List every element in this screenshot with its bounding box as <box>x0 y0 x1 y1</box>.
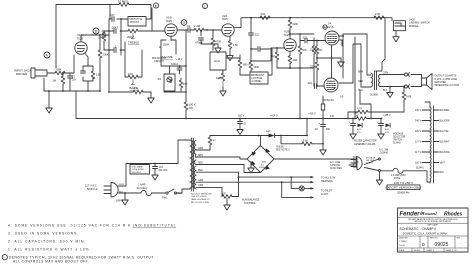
svg-text:NORMAL: NORMAL <box>409 25 420 28</box>
svg-text:10K: 10K <box>216 76 221 80</box>
svg-text:10K: 10K <box>128 72 133 76</box>
ground driver grid <box>213 44 221 53</box>
svg-text:BLK/YEL: BLK/YEL <box>440 131 450 133</box>
svg-text:.022: .022 <box>254 34 259 37</box>
svg-text:1W: 1W <box>189 106 194 110</box>
line/reverb jack J2 <box>385 18 430 31</box>
resistor R12 680K <box>226 55 250 75</box>
resistor R1 68K <box>55 68 65 75</box>
capacitor C6 470pF <box>195 30 213 45</box>
svg-text:+418 V: +418 V <box>308 112 316 115</box>
svg-text:U1A: U1A <box>214 59 220 63</box>
capacitor C2 .047 <box>109 13 121 21</box>
svg-text:2.2K: 2.2K <box>375 12 381 16</box>
svg-text:013999: 013999 <box>370 94 378 96</box>
svg-text:220 V: 220 V <box>415 131 421 133</box>
capacitor C18 25uF <box>68 73 77 91</box>
svg-text:013438: 013438 <box>175 193 183 195</box>
svg-text:1.6 AMP 250V: 1.6 AMP 250V <box>391 174 406 177</box>
svg-text:BLK: BLK <box>440 172 445 174</box>
cathode V2A <box>227 37 239 61</box>
voltage selector text <box>393 132 406 144</box>
filter cap C12 40uF riser <box>315 119 331 147</box>
riser rectifier to bus <box>306 118 308 137</box>
B+ center tap feed <box>376 18 386 71</box>
svg-text:JACK: JACK <box>409 18 415 21</box>
speaker SPK <box>422 74 433 90</box>
svg-text:22K: 22K <box>261 12 266 16</box>
svg-text:TYPE FUSE: TYPE FUSE <box>132 169 145 171</box>
svg-text:S3: S3 <box>158 77 162 81</box>
svg-text:.047: .047 <box>109 13 115 17</box>
node C circled <box>202 3 207 8</box>
grid resistor V5 220K <box>310 58 319 86</box>
svg-text:BLK/GRN: BLK/GRN <box>440 121 450 123</box>
svg-text:1.5K: 1.5K <box>96 74 101 77</box>
screen resistor V5 box <box>321 96 324 119</box>
hum balance pot <box>222 187 239 210</box>
heater arrows <box>311 176 314 199</box>
capacitor C4 .1 <box>109 42 125 52</box>
svg-text:10 MEG: 10 MEG <box>118 0 128 4</box>
svg-text:BLK/WHT: BLK/WHT <box>440 142 451 144</box>
fuse F1 1A SLO-BLO <box>137 183 154 195</box>
wire V5 grid <box>317 85 324 87</box>
svg-text:2. ALL CAPACITORS: 600 V MIN: 2. ALL CAPACITORS: 600 V MIN. <box>8 239 86 243</box>
svg-text:470pF: 470pF <box>195 41 203 45</box>
svg-text:GRN: GRN <box>198 180 203 182</box>
svg-text:50/60 Hz: 50/60 Hz <box>87 187 98 191</box>
svg-text:15K: 15K <box>183 82 188 86</box>
export caption <box>385 181 421 194</box>
svg-text:IMPEDANCE 3.2 OHM: IMPEDANCE 3.2 OHM <box>435 84 459 87</box>
svg-text:013442: 013442 <box>393 142 401 144</box>
svg-text:100 V: 100 V <box>415 163 421 165</box>
diode D2 <box>385 123 390 134</box>
resistor R19 470K <box>312 38 322 68</box>
svg-text:1N4003: 1N4003 <box>259 167 267 169</box>
svg-text:4.7K: 4.7K <box>133 87 139 91</box>
mid boost caption <box>152 57 183 63</box>
svg-text:600 VAC: 600 VAC <box>159 169 168 172</box>
export plug P2 <box>351 156 376 170</box>
ground bus left tap <box>237 118 247 135</box>
line filter cap C17 <box>152 163 168 180</box>
svg-text:SLO-BLO: SLO-BLO <box>132 172 142 174</box>
wire C8 to V2B grid <box>251 35 284 61</box>
svg-text:220K: 220K <box>310 49 316 52</box>
svg-text:4. SOME VERSIONS USE .01/125: 4. SOME VERSIONS USE .01/125 VAC FOR C14… <box>8 223 176 227</box>
wires mid-boost <box>164 66 186 92</box>
output text <box>435 75 459 88</box>
svg-text:3. USED IN SOME VERSIONS.: 3. USED IN SOME VERSIONS. <box>8 231 79 235</box>
pilot drop 2 <box>281 181 313 197</box>
svg-text:BLK: BLK <box>383 90 388 92</box>
svg-text:7025: 7025 <box>165 19 172 23</box>
export caption box <box>387 185 420 190</box>
svg-text:7025: 7025 <box>76 37 83 41</box>
svg-text:MODEL: MODEL <box>414 250 420 252</box>
export primary winding <box>425 102 434 183</box>
ground tone <box>148 92 154 103</box>
svg-text:B: B <box>155 4 157 8</box>
svg-text:GRN: GRN <box>198 148 203 150</box>
bass pot R6 10K <box>125 50 142 90</box>
HV tap BRN to bridge left <box>196 155 247 159</box>
capacitor C3 .0047 <box>109 25 125 33</box>
svg-text:EXPORT VERSION ONLY: EXPORT VERSION ONLY <box>385 186 421 190</box>
plug wire labels <box>119 184 125 194</box>
export fuse F2 <box>381 168 431 183</box>
note asterisk <box>2 255 154 264</box>
chassis ground power <box>116 192 128 205</box>
address micro text <box>408 218 458 223</box>
pilot drop 1 <box>290 176 299 188</box>
svg-text:15K: 15K <box>98 37 103 40</box>
svg-text:117 V: 117 V <box>415 152 421 154</box>
svg-text:TREBLE: TREBLE <box>128 40 139 44</box>
resistor R3 100K plate <box>98 35 109 91</box>
svg-text:USE P/T 013479: USE P/T 013479 <box>191 196 207 198</box>
node G circled <box>181 20 187 26</box>
output transformer T2 <box>358 71 388 96</box>
svg-text:1.5K: 1.5K <box>233 44 238 47</box>
node dot jack <box>62 72 64 74</box>
line wire lower <box>118 192 139 194</box>
svg-text:A.C. LINE: A.C. LINE <box>330 161 341 164</box>
capacitor C9 .02 <box>250 47 267 52</box>
capacitor C7 100uF <box>171 62 182 74</box>
resistor R18 56K <box>298 38 307 119</box>
svg-text:DESIGNER: DESIGNER <box>399 238 409 240</box>
resistor R2 1M <box>52 73 64 91</box>
svg-text:GRN: GRN <box>198 185 203 187</box>
heater line 1 <box>238 172 313 196</box>
volume pot R8 250K <box>160 36 177 66</box>
wire rectifier output <box>261 135 324 146</box>
wire jack tip to grid <box>51 55 74 73</box>
svg-text:220K: 220K <box>310 66 316 69</box>
svg-text:50/60 Hz: 50/60 Hz <box>397 190 410 194</box>
wire feedback top loop <box>56 5 110 69</box>
AC line conv receptacle wire <box>274 158 349 160</box>
bridge text <box>276 147 290 152</box>
svg-text:LIGHT: LIGHT <box>321 193 329 196</box>
resistor R15 22K <box>258 12 270 20</box>
svg-text:/ROGERS/: /ROGERS/ <box>419 211 437 216</box>
resistor R25 47 ohm <box>208 136 216 146</box>
svg-text:SEE NOTE 3: SEE NOTE 3 <box>276 150 290 152</box>
svg-text:GRN: GRN <box>116 199 122 202</box>
fuse note box <box>130 165 150 175</box>
svg-text:.022: .022 <box>302 36 307 39</box>
treble pot R5 250K <box>125 29 142 44</box>
svg-text:.047: .047 <box>159 167 164 169</box>
svg-text:+465 V: +465 V <box>383 114 391 117</box>
op-amp U1A mid-boost box <box>210 52 226 70</box>
vertical wire x109 <box>108 19 110 92</box>
capacitor C5 .02 coupling <box>186 24 191 32</box>
svg-text:+414 V: +414 V <box>270 114 278 117</box>
svg-text:100K: 100K <box>103 53 109 57</box>
svg-text:SCHEMATIC - CHAMP II: SCHEMATIC - CHAMP II <box>400 227 437 231</box>
export taps <box>415 110 450 174</box>
svg-text:.022: .022 <box>307 82 312 85</box>
export switch lines <box>365 148 389 171</box>
svg-text:Fender: Fender <box>400 212 421 218</box>
resistor R17 10K cathode <box>288 52 297 69</box>
heater text <box>321 176 336 182</box>
cathode network V1A <box>81 54 102 92</box>
svg-text:RED: RED <box>198 170 203 172</box>
heater line 2 GRN <box>196 180 313 182</box>
svg-text:100 TO 250 V: 100 TO 250 V <box>394 181 414 185</box>
svg-text:SWITCH: SWITCH <box>393 139 402 141</box>
svg-text:BLU: BLU <box>359 90 364 92</box>
svg-text:V5: V5 <box>340 95 344 99</box>
svg-text:230 V: 230 V <box>415 110 421 112</box>
screen riser <box>339 37 355 119</box>
svg-text:HEATERS: HEATERS <box>321 180 333 183</box>
ground input <box>46 90 52 113</box>
resistor R10 470K <box>211 29 221 50</box>
svg-text:4.7K: 4.7K <box>357 107 363 111</box>
svg-text:*: * <box>3 256 5 260</box>
svg-text:BRN: BRN <box>198 155 203 157</box>
resistor R9 2.2M <box>190 24 221 32</box>
svg-text:SW1: SW1 <box>162 196 168 199</box>
svg-text:CIRCUIT: CIRCUIT <box>154 60 165 63</box>
resistor R26 560K <box>249 62 259 72</box>
wire plate V1A <box>81 35 102 42</box>
number grid <box>398 236 469 248</box>
svg-text:SLO-BLO: SLO-BLO <box>137 187 148 190</box>
AC plug P1 <box>85 183 118 197</box>
svg-text:ALL CONTROLS MAX AND BOOST OFF: ALL CONTROLS MAX AND BOOST OFF. <box>13 260 89 264</box>
title block frame <box>398 208 469 252</box>
footswitch box <box>240 49 272 84</box>
ground output <box>387 86 393 98</box>
resistor R14 100K 1W <box>184 66 196 119</box>
svg-text:600 V: 600 V <box>238 114 245 117</box>
heater tap RED <box>196 170 239 172</box>
svg-text:WHT: WHT <box>119 184 125 186</box>
heater tap GRN lower <box>196 185 222 187</box>
svg-text:+15 V: +15 V <box>176 58 183 61</box>
svg-text:250 K: 250 K <box>127 35 134 39</box>
tube V2B 7025 <box>283 29 296 51</box>
mid rail wire <box>120 18 122 55</box>
ground bias node <box>316 57 344 67</box>
svg-text:6V6GTA: 6V6GTA <box>324 98 335 102</box>
resistor R13 15K <box>179 78 188 91</box>
input jack J1 <box>14 68 51 78</box>
transformer version note <box>191 193 212 203</box>
part name row <box>400 224 448 236</box>
mid pot R11 <box>216 70 225 87</box>
svg-text:013441: 013441 <box>416 168 424 170</box>
resistor R28 100K plate V2B <box>288 17 298 35</box>
wire V4 grid <box>317 40 325 42</box>
svg-text:CONV REC: CONV REC <box>330 168 342 170</box>
svg-text:USE SAME: USE SAME <box>132 166 144 169</box>
wire V1B plate <box>177 30 186 66</box>
svg-text:3-PRONG: 3-PRONG <box>330 165 341 167</box>
switch S2 boost box <box>121 17 151 27</box>
svg-text:5.6K: 5.6K <box>303 139 308 142</box>
wire V2A grid <box>213 29 222 31</box>
svg-text:560K: 560K <box>254 66 260 69</box>
pilot text <box>321 190 333 196</box>
svg-text:.02: .02 <box>187 24 191 28</box>
wire boost loop <box>110 5 151 20</box>
tube V4 6V6GTA <box>323 22 339 45</box>
svg-text:1M: 1M <box>271 54 276 58</box>
ground jack J2 <box>393 31 399 42</box>
svg-text:470: 470 <box>330 115 335 118</box>
svg-text:WHT: WHT <box>440 163 446 165</box>
svg-text:1. ALL RESISTORS ½ WATT ± 10%: 1. ALL RESISTORS ½ WATT ± 10%. <box>8 247 92 251</box>
ground riser <box>320 146 326 155</box>
svg-text:NFB: NFB <box>407 96 412 99</box>
resistor R23 36K 1W <box>354 112 367 121</box>
bottom row <box>399 248 458 252</box>
svg-text:1M: 1M <box>52 79 56 83</box>
capacitor C11 .022 to V5 <box>307 68 317 88</box>
tube V1B 7025 <box>165 16 177 37</box>
capacitor C1 .02 <box>101 29 109 37</box>
svg-text:RED: RED <box>358 81 363 83</box>
resistor R4 10MEG <box>118 0 129 6</box>
svg-text:470K: 470K <box>215 40 222 44</box>
svg-text:ASSEMBLY 021436: ASSEMBLY 021436 <box>354 143 376 146</box>
svg-text:DOMESTIC, C.S.A., EXPORT & JAP: DOMESTIC, C.S.A., EXPORT & JAPAN <box>403 232 448 235</box>
wire y91 to bus <box>76 91 100 119</box>
filter cap C14 cluster <box>349 118 357 139</box>
svg-text:117 V.A.C.: 117 V.A.C. <box>85 184 98 188</box>
svg-text:68K: 68K <box>57 68 62 72</box>
svg-text:D: D <box>422 242 425 247</box>
svg-text:127 V: 127 V <box>415 142 421 144</box>
svg-text:CONTROL: CONTROL <box>244 202 256 205</box>
svg-text:240 V: 240 V <box>415 121 421 123</box>
HV tap GRN + 47 ohm <box>196 145 210 150</box>
resistor R27 15K slope <box>98 31 109 50</box>
AC line conv receptacle <box>330 157 358 170</box>
svg-text:7025: 7025 <box>221 17 228 21</box>
svg-text:.0047: .0047 <box>111 25 118 29</box>
svg-text:Rhodes: Rhodes <box>444 211 463 217</box>
hum balance text <box>242 199 260 205</box>
svg-text:25V: 25V <box>72 79 77 82</box>
bus voltage labels <box>238 112 391 118</box>
logo Fender Rogers Rhodes <box>400 211 463 218</box>
bridge rectifier ZR1 <box>247 146 274 173</box>
capacitor C10 .022 to V4 <box>300 34 317 43</box>
svg-text:1-14-82: 1-14-82 <box>399 245 405 247</box>
svg-text:VOLTAGE: VOLTAGE <box>366 156 376 159</box>
svg-text:2.2M: 2.2M <box>194 24 201 28</box>
tube V5 6V6GTA <box>324 78 344 102</box>
pilot lamp <box>299 186 313 191</box>
node A (test point) <box>44 52 50 58</box>
cathode line V4 <box>331 46 333 78</box>
power transformer T1 <box>175 138 196 195</box>
capacitor C8 .022 <box>249 17 260 37</box>
svg-text:250K: 250K <box>163 43 170 47</box>
svg-text:6V6GTA: 6V6GTA <box>323 25 334 29</box>
resistor R20 2.2K bus end <box>374 12 384 20</box>
svg-text:THESE:: THESE: <box>276 147 285 149</box>
svg-text:(2 WIRE): (2 WIRE) <box>252 80 262 83</box>
svg-text:SCALE: SCALE <box>399 249 406 252</box>
svg-text:A DIVISION OF CBS MUSICAL INST: A DIVISION OF CBS MUSICAL INSTRUMENTS <box>415 220 452 223</box>
screen riser V5 <box>360 90 372 119</box>
wire treble to V1B <box>142 8 165 31</box>
plate wire V4 outer <box>339 34 371 78</box>
svg-text:RED: RED <box>198 162 203 164</box>
wires V2B plate couplings <box>277 34 314 68</box>
svg-text:SHEET 1 OF 1: SHEET 1 OF 1 <box>446 250 458 252</box>
filter assembly text <box>354 140 377 146</box>
resistor R7 4.7K <box>109 87 151 94</box>
svg-text:240 VOLT VERSIONS: 240 VOLT VERSIONS <box>191 193 212 195</box>
switch S1 on-off <box>154 189 190 199</box>
ground mid pot <box>220 87 226 96</box>
svg-text:100K: 100K <box>293 23 299 26</box>
connector pins <box>405 73 422 89</box>
svg-text:LINE/REV. SWITCH: LINE/REV. SWITCH <box>409 23 430 25</box>
svg-text:56K: 56K <box>302 48 307 52</box>
plate bus wire <box>234 18 385 28</box>
svg-text:BOOST: BOOST <box>131 21 140 24</box>
svg-text:TANK VOLTAGE TO: TANK VOLTAGE TO <box>191 198 210 201</box>
node B2 circled <box>153 3 158 8</box>
svg-text:09025: 09025 <box>435 242 449 248</box>
grid resistor V4 220K <box>310 41 319 59</box>
secondary wires to speaker <box>380 75 404 87</box>
node B circled test point <box>93 28 99 34</box>
svg-text:013440: 013440 <box>380 152 389 155</box>
tube V2A 7025 <box>221 14 234 36</box>
note marker asterisk <box>323 25 327 30</box>
resistor R16 1M <box>271 47 279 68</box>
svg-text:J. SWENT: J. SWENT <box>399 241 407 243</box>
tube V1A 7025 <box>75 33 87 54</box>
NFB resistor R21 <box>402 86 411 112</box>
svg-text:A17: A17 <box>266 130 271 133</box>
svg-text:100uF: 100uF <box>171 62 179 66</box>
svg-text:VOLTAGE: VOLTAGE <box>393 132 404 135</box>
ground export <box>376 172 382 185</box>
DC wire to bridge <box>210 135 259 137</box>
line wire upper <box>118 140 190 186</box>
svg-text:BLK/ORG: BLK/ORG <box>440 152 450 154</box>
svg-text:10K: 10K <box>293 58 298 62</box>
svg-text:450: 450 <box>326 128 331 131</box>
svg-text:SELECTOR: SELECTOR <box>393 136 406 138</box>
svg-text:BLK/RED: BLK/RED <box>440 110 450 112</box>
plate wire V5 inner <box>339 44 371 87</box>
wire sleeve down <box>44 78 76 91</box>
diode D1 <box>357 123 362 134</box>
B+ bus wire <box>76 118 382 120</box>
LED boost indicator box <box>158 74 176 91</box>
diode D3 <box>259 130 275 137</box>
svg-text:DRIVER: DRIVER <box>16 72 28 76</box>
svg-text:PART NO.: PART NO. <box>430 237 438 240</box>
svg-text:BRN: BRN <box>358 71 363 73</box>
